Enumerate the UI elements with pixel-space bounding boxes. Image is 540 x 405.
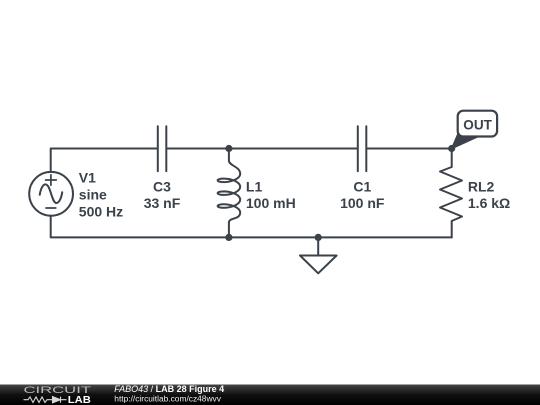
svg-text:C3: C3 bbox=[153, 179, 171, 195]
resistor RL2 bbox=[440, 149, 462, 238]
svg-text:FABO43 / LAB 28 Figure 4: FABO43 / LAB 28 Figure 4 bbox=[114, 384, 224, 394]
logo resistor-diode squiggle bbox=[24, 397, 67, 403]
flag pointer OUT bbox=[452, 134, 478, 149]
capacitor C1 bbox=[358, 126, 367, 171]
svg-text:33 nF: 33 nF bbox=[144, 195, 181, 211]
svg-text:100 nF: 100 nF bbox=[340, 195, 385, 211]
svg-text:OUT: OUT bbox=[463, 118, 492, 133]
svg-text:C1: C1 bbox=[353, 179, 371, 195]
wire top rail C3 to C1 bbox=[167, 148, 357, 150]
svg-text:500 Hz: 500 Hz bbox=[79, 203, 123, 219]
svg-text:LAB: LAB bbox=[68, 395, 91, 405]
node at ground bbox=[315, 234, 322, 241]
inductor L1 bbox=[218, 149, 241, 238]
wire top rail C1 to node OUT bbox=[367, 148, 452, 150]
ground bbox=[300, 237, 337, 273]
svg-text:V1: V1 bbox=[79, 169, 96, 185]
svg-text:100 mH: 100 mH bbox=[246, 195, 296, 211]
capacitor C3 bbox=[158, 126, 167, 171]
flag OUT box bbox=[458, 111, 497, 137]
svg-text:http://circuitlab.com/cz48wvv: http://circuitlab.com/cz48wvv bbox=[114, 394, 221, 404]
svg-text:sine: sine bbox=[79, 186, 107, 202]
svg-text:RL2: RL2 bbox=[468, 179, 495, 195]
wire bottom rail bbox=[51, 216, 452, 238]
svg-text:L1: L1 bbox=[246, 179, 263, 195]
footer bar bbox=[0, 385, 540, 405]
wire top rail left of C3 bbox=[51, 149, 158, 172]
node at OUT bbox=[448, 145, 455, 152]
svg-text:1.6 kΩ: 1.6 kΩ bbox=[468, 195, 510, 211]
node at L1 bottom bbox=[225, 234, 232, 241]
node at L1 top bbox=[225, 145, 232, 152]
voltage source V1 bbox=[29, 172, 73, 216]
